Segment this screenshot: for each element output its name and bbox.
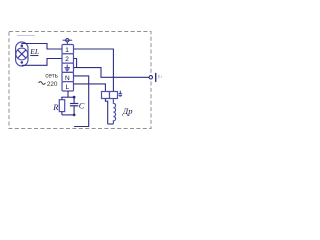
svg-text:2: 2 [65,56,69,63]
label C [79,101,85,111]
wire earth terminal to external connector [74,68,150,78]
lamp EL [16,42,28,66]
wire terminal L to starter left box [74,84,106,92]
svg-text:220: 220 [47,81,58,88]
starter screw contact [118,91,122,97]
label Dr [122,106,133,116]
dashed enclosure border [9,32,151,129]
svg-text:Др: Др [122,106,133,116]
node RC bottom [73,114,76,117]
label mains [39,72,59,88]
wire starter left box to choke bottom [105,99,113,125]
wire terminal 2 down to earth wire [74,59,77,68]
svg-text:1: 1 [65,47,69,54]
wire terminal N to RC bottom [74,76,89,127]
terminal block box earth [62,63,74,72]
wire lamp bottom to terminal 2 [22,59,62,66]
wire terminal L bottom to RC top rail [61,91,74,97]
label R [52,102,59,112]
resistor R [59,97,64,115]
terminal block box L [62,82,74,92]
wire RC bottom rail [62,114,74,116]
wire lamp top to terminal 1 [22,44,62,50]
terminal block box 1 [62,45,74,54]
svg-text:C: C [79,101,85,111]
svg-text:L: L [66,84,70,91]
node RC top [73,96,76,99]
capacitor C [70,97,78,115]
wire terminal 1 to starter right box [74,49,114,92]
screw terminal above strip [63,39,73,45]
terminal block box N [62,72,74,82]
svg-text:сеть: сеть [45,72,58,79]
external connector socket [149,73,161,82]
label EL [29,47,39,56]
terminal block box 2 [62,54,74,63]
starter right box [110,92,118,99]
svg-text:R: R [52,102,59,112]
svg-text:N: N [65,75,70,82]
svg-text:EL: EL [29,47,39,56]
inductor choke Dr [113,99,115,125]
starter left box [102,92,110,99]
